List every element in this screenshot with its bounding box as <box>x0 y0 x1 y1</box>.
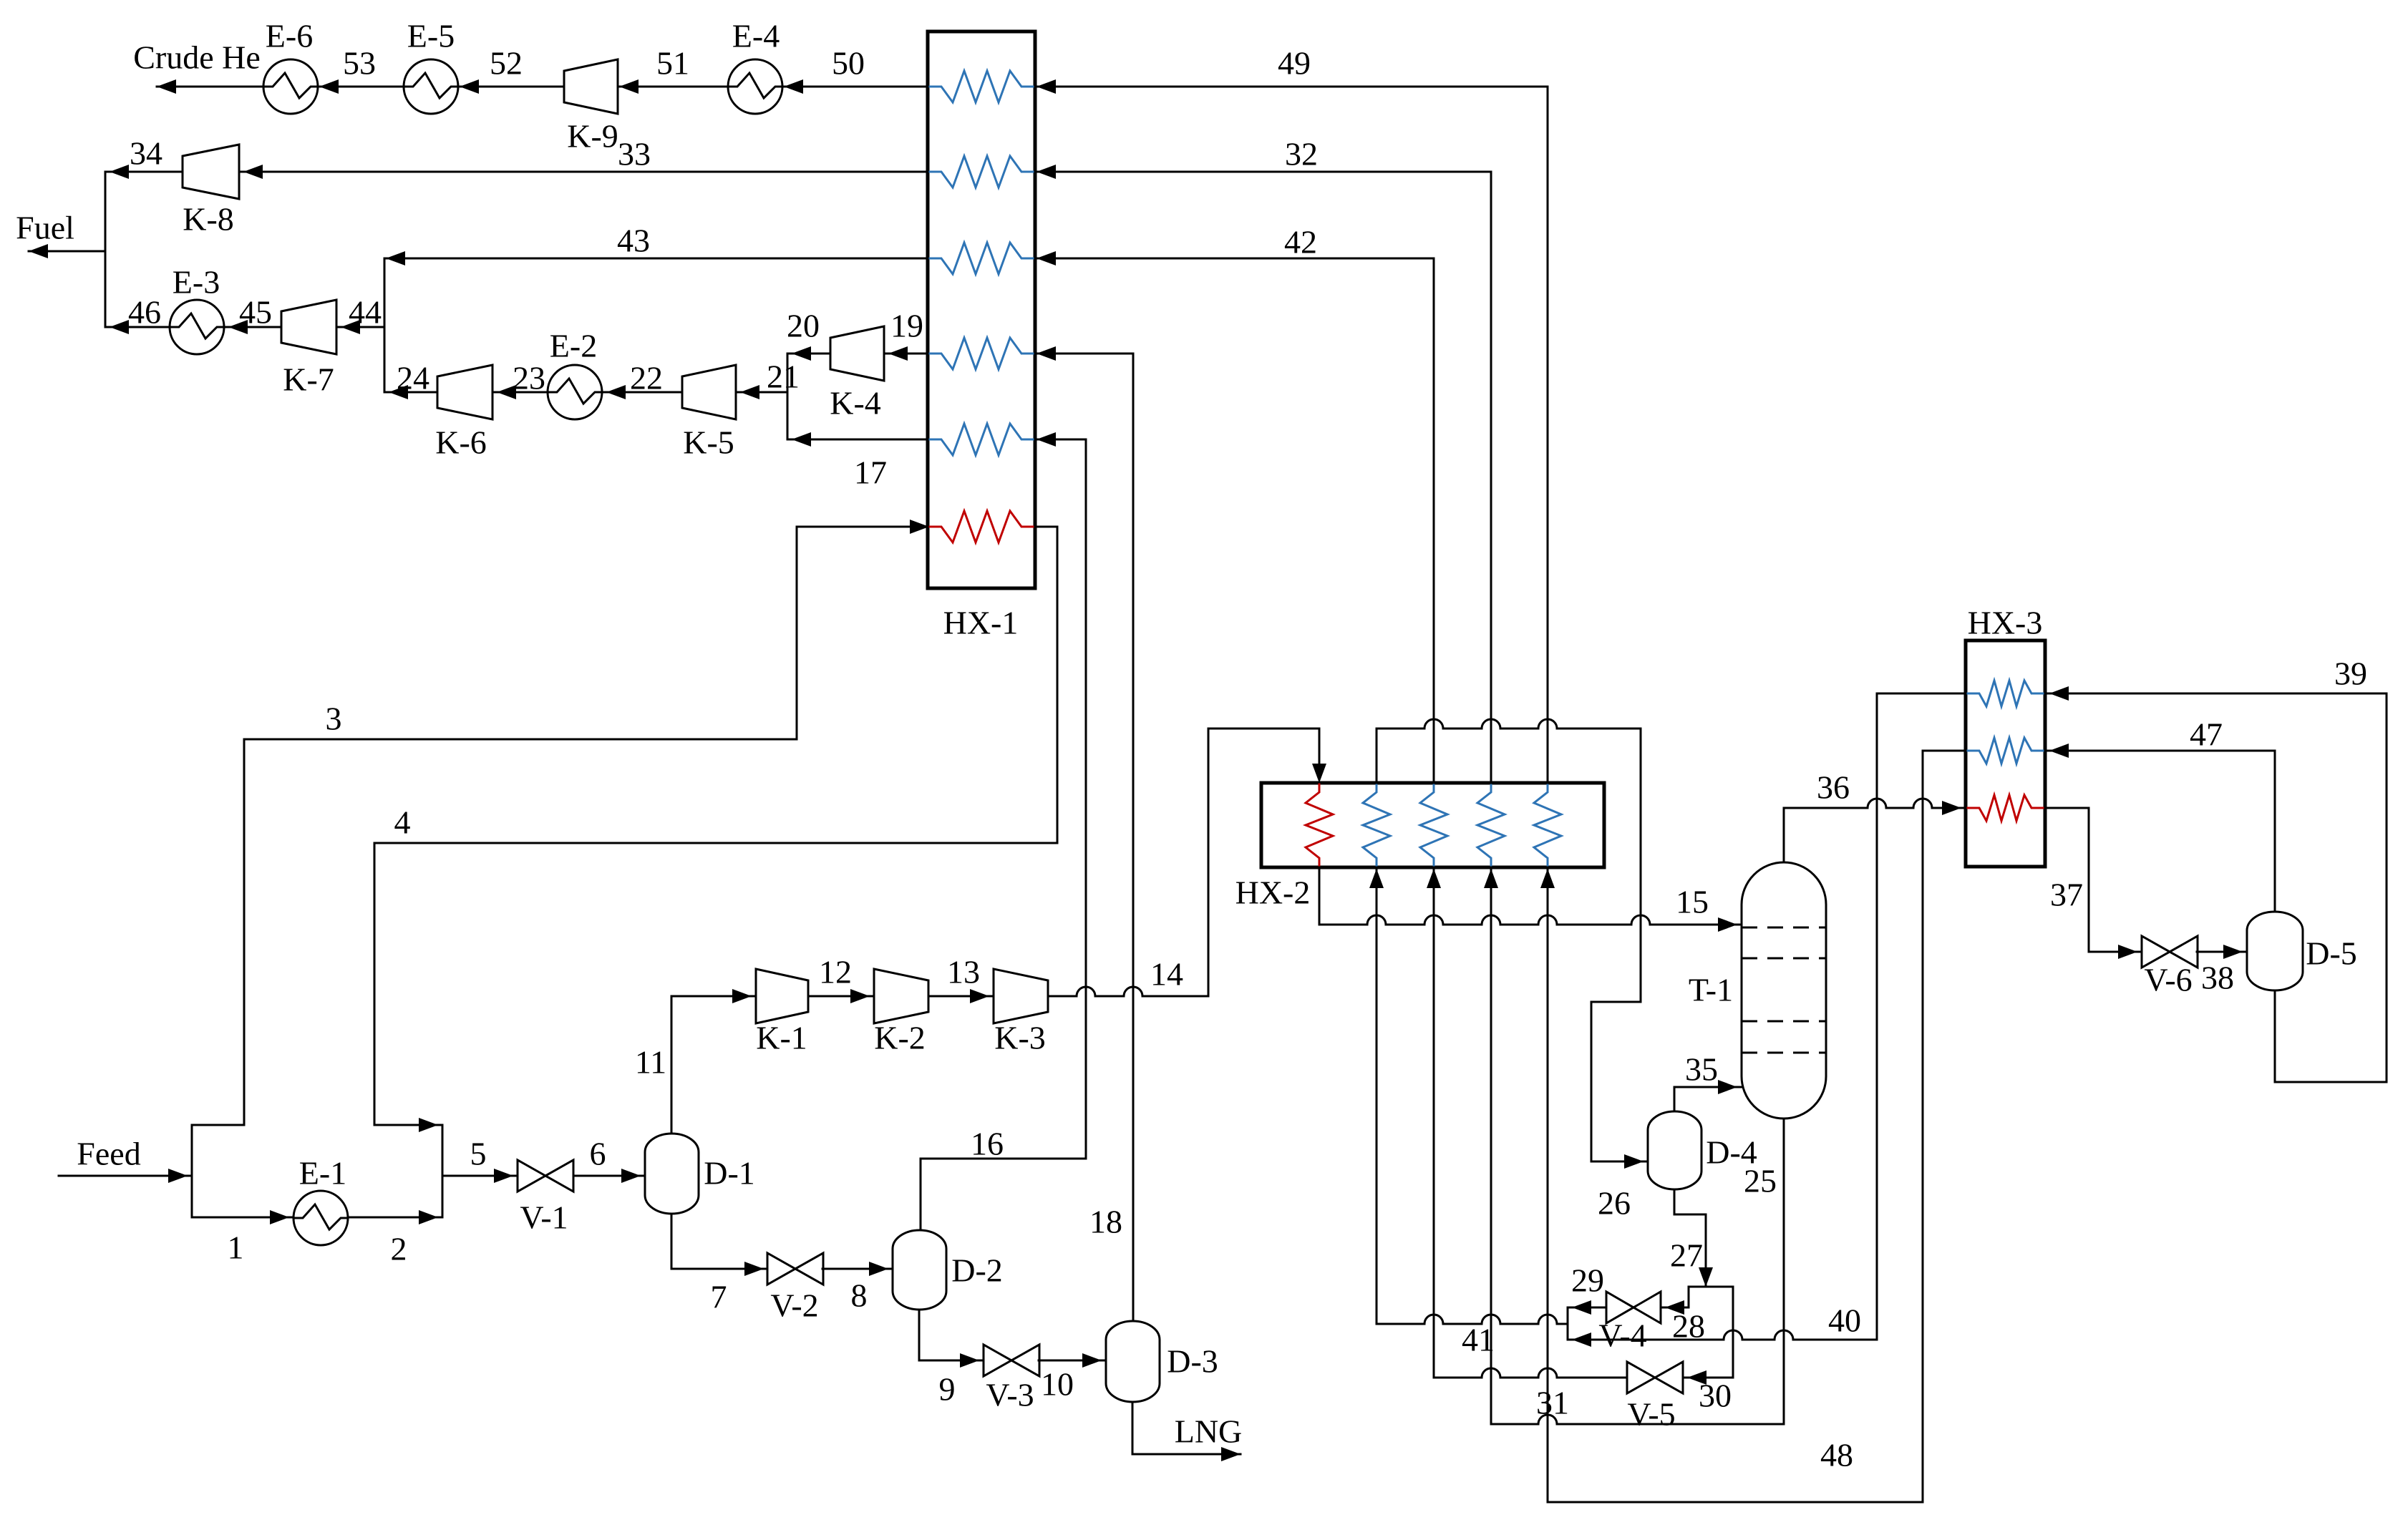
svg-text:K-9: K-9 <box>567 118 618 155</box>
svg-text:8: 8 <box>851 1277 868 1314</box>
label 11 <box>635 1044 666 1081</box>
label 37 <box>2050 877 2083 913</box>
label D-3 <box>1167 1343 1218 1380</box>
label 23 <box>513 360 545 396</box>
HX-2 cold coil 4 (stream 48/49) <box>1534 784 1561 866</box>
svg-text:HX-3: HX-3 <box>1968 605 2043 641</box>
svg-text:K-8: K-8 <box>183 201 234 238</box>
label E-2 <box>550 328 597 364</box>
cooler E-2 <box>548 365 602 419</box>
label K-3 <box>994 1020 1046 1056</box>
wire stream 42 <box>1035 251 1434 783</box>
compressor K-2 <box>874 969 928 1023</box>
compressor K-6 <box>437 365 492 419</box>
svg-text:20: 20 <box>787 308 820 344</box>
HX-2 hot coil (stream 14/15) <box>1306 784 1333 866</box>
label K-4 <box>830 385 881 422</box>
cooler E-5 <box>404 59 458 114</box>
wire stream 53 <box>318 79 404 94</box>
svg-text:4: 4 <box>394 804 411 841</box>
svg-text:52: 52 <box>490 45 523 82</box>
wire stream 30 <box>1683 1370 1733 1385</box>
svg-text:45: 45 <box>239 294 272 331</box>
label LNG <box>1175 1413 1243 1450</box>
svg-text:47: 47 <box>2190 716 2223 753</box>
svg-text:2: 2 <box>391 1231 407 1267</box>
wire stream 24 <box>384 385 437 399</box>
svg-text:V-4: V-4 <box>1598 1317 1646 1354</box>
wire LNG outlet <box>1132 1402 1241 1461</box>
wire stream 8 <box>822 1262 893 1276</box>
svg-text:53: 53 <box>343 45 376 82</box>
wire stream 48 <box>1540 751 1966 1502</box>
svg-text:K-2: K-2 <box>874 1020 926 1056</box>
svg-text:37: 37 <box>2050 877 2083 913</box>
svg-text:50: 50 <box>832 45 865 82</box>
wire stream 25 <box>1484 867 1784 1424</box>
wire stream 22 <box>602 385 682 399</box>
label 32 <box>1285 136 1318 172</box>
column T-1 <box>1742 862 1826 1119</box>
wire stream 31 <box>1427 867 1627 1378</box>
compressor K-4 <box>830 326 884 381</box>
wire stream 15 <box>1319 867 1742 932</box>
svg-text:51: 51 <box>656 45 689 82</box>
wire stream 18 <box>1035 346 1133 1321</box>
svg-text:36: 36 <box>1817 769 1850 806</box>
node junction bar 29/40 to 41 <box>1567 1307 1569 1340</box>
label 42 <box>1284 224 1317 260</box>
svg-text:E-2: E-2 <box>550 328 597 364</box>
label 4 <box>394 804 411 841</box>
svg-text:E-1: E-1 <box>299 1155 346 1192</box>
wire stream 12 <box>808 989 874 1003</box>
svg-text:34: 34 <box>130 135 162 172</box>
label 20 <box>787 308 820 344</box>
label 36 <box>1817 769 1850 806</box>
node split 27 junction <box>1689 1287 1733 1378</box>
compressor K-9 <box>564 59 618 114</box>
label 18 <box>1089 1204 1122 1240</box>
HX-1 coil 4 (stream 19/18) <box>929 338 1034 369</box>
label 47 <box>2190 716 2223 753</box>
svg-text:10: 10 <box>1041 1366 1074 1403</box>
label 7 <box>711 1279 727 1315</box>
label 52 <box>490 45 523 82</box>
label 35 <box>1685 1051 1718 1088</box>
svg-text:24: 24 <box>397 360 429 396</box>
svg-text:V-1: V-1 <box>520 1199 568 1236</box>
label 43 <box>617 223 650 259</box>
column T-1 trays (dashed) <box>1742 927 1826 1053</box>
label 27 <box>1670 1237 1703 1274</box>
label K-1 <box>756 1020 807 1056</box>
node feed split bar <box>191 1125 193 1217</box>
valve V-3 <box>984 1345 1039 1376</box>
wire stream 39 <box>2045 686 2387 1082</box>
label 48 <box>1820 1437 1853 1473</box>
heat exchanger HX-2 box <box>1261 783 1604 867</box>
svg-text:14: 14 <box>1150 956 1183 993</box>
svg-text:K-5: K-5 <box>683 424 734 461</box>
svg-text:44: 44 <box>349 294 382 331</box>
wire stream 49 <box>1035 79 1548 783</box>
valve V-2 <box>767 1253 823 1285</box>
HX-1 coil 3 (stream 43/42) <box>929 243 1034 274</box>
label Fuel <box>16 210 74 246</box>
wire stream 19 <box>884 346 928 361</box>
label V-1 <box>520 1199 568 1236</box>
valve V-4 <box>1606 1292 1661 1323</box>
label 33 <box>618 136 651 172</box>
svg-text:7: 7 <box>711 1279 727 1315</box>
label 22 <box>630 360 663 396</box>
wire stream 41 <box>1369 867 1568 1324</box>
svg-text:25: 25 <box>1744 1163 1777 1199</box>
label 49 <box>1278 45 1311 82</box>
drum D-3 <box>1106 1321 1160 1402</box>
label V-4 <box>1598 1317 1646 1354</box>
svg-text:1: 1 <box>228 1229 244 1266</box>
HX-3 cold coil 1 (stream 39/40) <box>1967 681 2044 706</box>
label 16 <box>971 1126 1004 1162</box>
svg-text:D-2: D-2 <box>951 1252 1003 1289</box>
label 15 <box>1676 884 1709 920</box>
svg-text:E-6: E-6 <box>266 18 313 54</box>
svg-text:LNG: LNG <box>1175 1413 1243 1450</box>
wire stream 47 <box>2045 744 2275 912</box>
svg-text:18: 18 <box>1089 1204 1122 1240</box>
valve V-1 <box>518 1160 573 1192</box>
cooler E-3 <box>170 300 224 354</box>
label HX-1 <box>943 605 1019 641</box>
svg-text:35: 35 <box>1685 1051 1718 1088</box>
HX-1 hot coil (stream 3/4) <box>929 511 1034 542</box>
drum D-2 <box>893 1230 946 1310</box>
svg-text:E-3: E-3 <box>173 264 220 301</box>
label K-6 <box>435 424 487 461</box>
wire stream 23 <box>492 385 548 399</box>
label 8 <box>851 1277 868 1314</box>
svg-text:6: 6 <box>590 1136 606 1172</box>
wire stream 5 <box>442 1169 518 1183</box>
label 13 <box>947 954 980 990</box>
compressor K-1 <box>756 969 808 1023</box>
label Crude He <box>133 39 261 76</box>
label K-7 <box>283 361 334 398</box>
label HX-3 <box>1968 605 2043 641</box>
label E-1 <box>299 1155 346 1192</box>
svg-text:V-6: V-6 <box>2144 962 2192 998</box>
label 5 <box>470 1136 487 1172</box>
HX-1 coil 1 (stream 50/49) <box>929 71 1034 102</box>
wire stream 29 <box>1568 1300 1606 1315</box>
wire stream 38 <box>2197 945 2247 959</box>
svg-text:43: 43 <box>617 223 650 259</box>
label D-1 <box>704 1155 755 1192</box>
cooler E-1 <box>293 1191 348 1245</box>
wire stream 50 <box>782 79 928 94</box>
wire Crude He outlet <box>157 79 263 94</box>
svg-text:49: 49 <box>1278 45 1311 82</box>
svg-text:V-2: V-2 <box>770 1287 818 1324</box>
wire stream 37 <box>2045 808 2142 959</box>
wire stream 26 <box>1377 719 1648 1169</box>
wire stream 17 <box>787 432 928 447</box>
svg-text:42: 42 <box>1284 224 1317 260</box>
svg-text:K-4: K-4 <box>830 385 881 422</box>
label 9 <box>939 1371 956 1408</box>
wire Feed inlet <box>59 1169 192 1183</box>
label 2 <box>391 1231 407 1267</box>
label 38 <box>2201 960 2234 996</box>
svg-text:15: 15 <box>1676 884 1709 920</box>
valve V-5 <box>1627 1362 1683 1393</box>
label 6 <box>590 1136 606 1172</box>
svg-text:Fuel: Fuel <box>16 210 74 246</box>
label 25 <box>1744 1163 1777 1199</box>
wire stream 40 <box>1568 693 1966 1347</box>
wire stream 45 <box>224 320 281 334</box>
label V-5 <box>1627 1396 1675 1433</box>
label 41 <box>1462 1322 1495 1358</box>
label D-5 <box>2306 935 2357 972</box>
label 40 <box>1828 1302 1861 1339</box>
label 14 <box>1150 956 1183 993</box>
HX-1 coil 5 (stream 17/16) <box>929 424 1034 455</box>
label 46 <box>128 294 161 331</box>
label V-3 <box>986 1377 1034 1413</box>
valve V-6 <box>2142 936 2198 968</box>
label 12 <box>819 954 852 990</box>
label E-3 <box>173 264 220 301</box>
wire stream 36 <box>1784 799 1966 862</box>
svg-text:22: 22 <box>630 360 663 396</box>
svg-text:T-1: T-1 <box>1689 972 1733 1008</box>
svg-text:12: 12 <box>819 954 852 990</box>
svg-text:39: 39 <box>2334 656 2367 692</box>
svg-text:K-7: K-7 <box>283 361 334 398</box>
svg-text:38: 38 <box>2201 960 2234 996</box>
label 29 <box>1571 1262 1604 1299</box>
svg-text:K-6: K-6 <box>435 424 487 461</box>
svg-text:E-5: E-5 <box>407 18 455 54</box>
wire stream 52 <box>458 79 564 94</box>
svg-text:19: 19 <box>890 308 923 344</box>
wire stream 21 <box>736 385 787 399</box>
node junction bar 20/17 to 21 <box>787 354 789 439</box>
label 1 <box>228 1229 244 1266</box>
svg-text:D-5: D-5 <box>2306 935 2357 972</box>
label D-2 <box>951 1252 1003 1289</box>
svg-text:29: 29 <box>1571 1262 1604 1299</box>
drum D-1 <box>645 1134 699 1214</box>
HX-1 coil 2 (stream 33/32) <box>929 156 1034 187</box>
HX-2 cold coil 3 (stream 25/32) <box>1477 784 1505 866</box>
svg-text:E-4: E-4 <box>732 18 780 54</box>
label 44 <box>349 294 382 331</box>
HX-3 cold coil 2 (stream 47/48) <box>1967 738 2044 764</box>
svg-text:D-1: D-1 <box>704 1155 755 1192</box>
wire stream 6 <box>573 1169 645 1183</box>
label 31 <box>1536 1385 1569 1421</box>
svg-text:D-3: D-3 <box>1167 1343 1218 1380</box>
HX-2 cold coil 1 (stream 41/26) <box>1363 784 1390 866</box>
label 3 <box>326 701 342 737</box>
wire stream 10 <box>1039 1353 1106 1368</box>
svg-text:13: 13 <box>947 954 980 990</box>
label Feed <box>77 1136 140 1172</box>
label 19 <box>890 308 923 344</box>
wire stream 14 <box>1048 729 1326 996</box>
svg-text:V-5: V-5 <box>1627 1396 1675 1433</box>
svg-text:30: 30 <box>1699 1378 1732 1414</box>
label K-8 <box>183 201 234 238</box>
wire stream 28 <box>1661 1300 1689 1315</box>
label D-4 <box>1706 1134 1757 1171</box>
svg-text:40: 40 <box>1828 1302 1861 1339</box>
wire stream 33 <box>239 165 928 179</box>
label 50 <box>832 45 865 82</box>
wire stream 9 <box>919 1310 984 1368</box>
wire stream 11 <box>671 989 756 1134</box>
svg-text:27: 27 <box>1670 1237 1703 1274</box>
svg-text:21: 21 <box>767 359 800 395</box>
wire stream 2 <box>348 1210 442 1224</box>
svg-text:K-3: K-3 <box>994 1020 1046 1056</box>
heat exchanger HX-1 box <box>928 31 1035 588</box>
svg-text:31: 31 <box>1536 1385 1569 1421</box>
wire stream 1 <box>192 1210 293 1224</box>
label 34 <box>130 135 162 172</box>
label 39 <box>2334 656 2367 692</box>
svg-text:Feed: Feed <box>77 1136 140 1172</box>
svg-text:11: 11 <box>635 1044 666 1081</box>
svg-text:46: 46 <box>128 294 161 331</box>
wire stream 46 <box>105 320 170 334</box>
svg-text:HX-1: HX-1 <box>943 605 1019 641</box>
cooler E-6 <box>263 59 318 114</box>
wire stream 13 <box>928 989 994 1003</box>
wire stream 44 <box>336 320 384 334</box>
label E-4 <box>732 18 780 54</box>
wire stream 43 <box>384 251 928 265</box>
wire fuel header vertical <box>105 172 107 327</box>
svg-text:41: 41 <box>1462 1322 1495 1358</box>
label K-9 <box>567 118 618 155</box>
label 45 <box>239 294 272 331</box>
wire stream 34 <box>105 165 183 179</box>
node junction bar 43/24 to 44 <box>384 258 386 392</box>
svg-text:33: 33 <box>618 136 651 172</box>
compressor K-3 <box>994 969 1048 1023</box>
label 21 <box>767 359 800 395</box>
label 28 <box>1672 1308 1705 1345</box>
wire stream 20 <box>787 346 830 361</box>
drum D-4 <box>1648 1111 1701 1189</box>
label 10 <box>1041 1366 1074 1403</box>
wire stream 4 <box>374 527 1057 1132</box>
svg-text:26: 26 <box>1598 1185 1631 1222</box>
label 30 <box>1699 1378 1732 1414</box>
svg-text:HX-2: HX-2 <box>1235 874 1311 911</box>
drum D-5 <box>2247 912 2303 990</box>
label 53 <box>343 45 376 82</box>
svg-text:32: 32 <box>1285 136 1318 172</box>
compressor K-8 <box>183 145 239 199</box>
svg-text:9: 9 <box>939 1371 956 1408</box>
wire stream 51 <box>618 79 728 94</box>
svg-text:16: 16 <box>971 1126 1004 1162</box>
wire stream 16 <box>921 432 1086 1230</box>
label 51 <box>656 45 689 82</box>
label K-2 <box>874 1020 926 1056</box>
label HX-2 <box>1235 874 1311 911</box>
wire stream 3 <box>192 520 929 1125</box>
label K-5 <box>683 424 734 461</box>
svg-text:48: 48 <box>1820 1437 1853 1473</box>
svg-text:5: 5 <box>470 1136 487 1172</box>
wire stream 27 <box>1674 1189 1713 1287</box>
label V-2 <box>770 1287 818 1324</box>
label E-5 <box>407 18 455 54</box>
label 17 <box>854 454 887 491</box>
svg-text:23: 23 <box>513 360 545 396</box>
label V-6 <box>2144 962 2192 998</box>
svg-text:K-1: K-1 <box>756 1020 807 1056</box>
svg-text:17: 17 <box>854 454 887 491</box>
node mix junction bar 2/4 to 5 <box>442 1125 444 1217</box>
label 26 <box>1598 1185 1631 1222</box>
svg-text:V-3: V-3 <box>986 1377 1034 1413</box>
label 24 <box>397 360 429 396</box>
compressor K-5 <box>682 365 736 419</box>
label E-6 <box>266 18 313 54</box>
heat exchanger HX-3 box <box>1966 640 2045 867</box>
HX-2 cold coil 2 (stream 31/42) <box>1420 784 1447 866</box>
svg-text:3: 3 <box>326 701 342 737</box>
label T-1 <box>1689 972 1733 1008</box>
HX-3 hot coil (stream 36/37) <box>1967 795 2044 821</box>
compressor K-7 <box>281 300 336 354</box>
cooler E-4 <box>728 59 782 114</box>
wire stream 32 <box>1035 165 1491 783</box>
wire stream 35 <box>1674 1080 1742 1111</box>
wire Fuel outlet <box>29 244 105 258</box>
svg-text:Crude He: Crude He <box>133 39 261 76</box>
wire stream 7 <box>671 1214 768 1276</box>
